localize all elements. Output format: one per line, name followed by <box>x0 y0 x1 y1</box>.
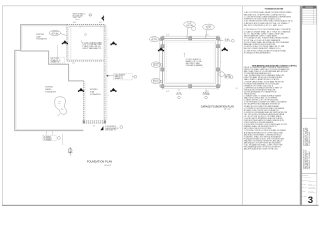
svg-text:10'-8": 10'-8" <box>166 35 170 37</box>
svg-text:SD1: SD1 <box>61 109 64 111</box>
corridor bottom arrow label <box>100 126 103 130</box>
svg-text:4'-0": 4'-0" <box>99 22 102 24</box>
north/section marker top <box>101 16 104 21</box>
svg-text:@ 32" OC: @ 32" OC <box>153 82 159 84</box>
garage slab dashed inner edge <box>166 42 214 82</box>
callout oval sill plate <box>49 31 61 36</box>
svg-text:10'-8": 10'-8" <box>166 91 170 93</box>
dashed label raised floor <box>43 135 56 140</box>
svg-text:2x4 PTDF: 2x4 PTDF <box>206 26 212 28</box>
new garage addition stem walls (dashed) <box>67 25 105 123</box>
oval: left callout 3 <box>151 78 160 83</box>
svg-text:EXISTING: EXISTING <box>90 89 98 91</box>
notes column divider <box>242 6 244 205</box>
svg-text:@ 48" OC: @ 48" OC <box>225 41 231 43</box>
svg-text:1/4" = 1'-0": 1/4" = 1'-0" <box>224 109 231 111</box>
svg-text:EXISTING: EXISTING <box>45 87 53 89</box>
svg-text:SAN DIEGO, CA 92103: SAN DIEGO, CA 92103 <box>308 151 311 169</box>
svg-text:MIN. INTO CONCRETE @ 48" O.C.: MIN. INTO CONCRETE @ 48" O.C. MAX. U.N.O… <box>244 24 284 27</box>
garage dimension lines <box>159 35 222 89</box>
holdown right of corridor <box>111 88 116 91</box>
svg-text:12" STEM: 12" STEM <box>225 74 231 76</box>
revision/detail bubble <box>55 97 67 115</box>
top dimension line <box>69 26 107 28</box>
svg-text:SILL PL.: SILL PL. <box>153 65 159 67</box>
svg-text:EXISTING: EXISTING <box>36 34 44 36</box>
svg-text:3: 3 <box>308 195 313 206</box>
garage holdown left <box>158 47 163 50</box>
holdown left of room <box>62 40 67 43</box>
pier pads <box>161 37 220 88</box>
svg-text:FTG. TYP.: FTG. TYP. <box>151 40 158 42</box>
revision table <box>302 6 316 9</box>
svg-text:SILL PL.: SILL PL. <box>206 28 212 30</box>
svg-text:2x4 PTDF: 2x4 PTDF <box>153 63 159 65</box>
oval: left callout 1 <box>150 37 159 42</box>
svg-text:PH (619) 555-0123: PH (619) 555-0123 <box>309 132 311 146</box>
svg-text:SHEET: SHEET <box>302 196 306 198</box>
title block rotated firm info <box>303 128 311 170</box>
dashed label (E) concrete slab <box>50 57 64 63</box>
title block mid divider <box>302 117 317 119</box>
oval: left callout 2 <box>151 62 160 67</box>
title block separator (thick) <box>300 6 302 205</box>
existing slab foundation outline <box>15 25 84 131</box>
svg-text:FOUNDATION PLAN: FOUNDATION PLAN <box>87 160 112 164</box>
svg-text:FTG. TYP.: FTG. TYP. <box>225 78 232 80</box>
garage foundation outline <box>162 38 218 86</box>
holdown left of corridor <box>78 88 83 91</box>
svg-text:GARAGE FOUNDATION PLAN: GARAGE FOUNDATION PLAN <box>201 105 234 108</box>
leader to wall <box>108 75 114 77</box>
section marker <box>68 149 72 153</box>
svg-text:AND APPLICABLE SECTIONS OF THE: AND APPLICABLE SECTIONS OF THE CBC. <box>244 148 279 151</box>
right wall dim ticks <box>104 28 107 120</box>
oval: top callout 2 <box>203 24 215 30</box>
wall inner parallels <box>68 26 103 120</box>
svg-text:REVISIONS: REVISIONS <box>306 7 313 9</box>
svg-text:FOUNDATION REQUIREMENTS.: FOUNDATION REQUIREMENTS. <box>244 51 272 54</box>
svg-text:FTG. TYP.: FTG. TYP. <box>176 94 183 96</box>
svg-text:1/4" = 1'-0": 1/4" = 1'-0" <box>104 165 111 167</box>
right callout 2 <box>219 72 224 77</box>
garage holdown right <box>222 47 227 50</box>
dashed label right (conc slab) <box>114 74 133 80</box>
svg-text:FTG. SEE DET.: FTG. SEE DET. <box>73 15 84 17</box>
wall cross ticks <box>66 24 106 124</box>
title block lower rows <box>302 173 317 175</box>
svg-text:16'-0": 16'-0" <box>73 22 77 24</box>
svg-text:15" SQ.: 15" SQ. <box>152 38 157 40</box>
svg-text:12"x12": 12"x12" <box>187 23 192 25</box>
svg-text:1/8: 1/8 <box>236 88 238 90</box>
svg-text:@ CORNER: @ CORNER <box>202 94 209 96</box>
holdown right of room <box>111 41 116 44</box>
svg-text:FOUNDATION NOTES: FOUNDATION NOTES <box>265 7 284 10</box>
svg-text:11'-4": 11'-4" <box>72 63 76 65</box>
svg-text:15" SQ.: 15" SQ. <box>177 92 182 94</box>
existing outline inner face lines <box>16 26 83 129</box>
oval: top callout 1 <box>184 22 196 28</box>
svg-text:3/SD-1 TYP.: 3/SD-1 TYP. <box>73 17 82 19</box>
